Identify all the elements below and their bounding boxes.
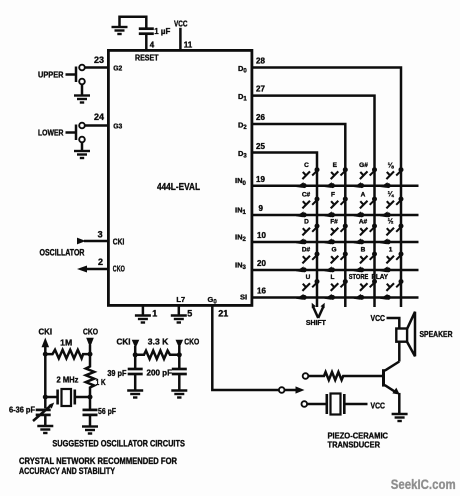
wire 200pF to ground	[178, 374, 181, 390]
svg-text:5: 5	[187, 309, 192, 319]
resistor R1 (base)	[308, 372, 382, 380]
svg-text:1 µF: 1 µF	[154, 26, 170, 36]
svg-text:ACCURACY AND STABILITY: ACCURACY AND STABILITY	[19, 466, 115, 476]
ground (varcap)	[37, 426, 53, 433]
svg-text:444L-EVAL: 444L-EVAL	[157, 182, 200, 193]
capacitor C1 1uF	[139, 29, 154, 34]
svg-text:2 MHz: 2 MHz	[57, 375, 79, 384]
svg-text:20: 20	[257, 259, 266, 268]
svg-text:28: 28	[256, 56, 265, 65]
svg-text:SI: SI	[240, 293, 247, 302]
ground (pin 1)	[135, 316, 151, 323]
svg-text:OSCILLATOR: OSCILLATOR	[40, 247, 85, 257]
svg-text:10: 10	[257, 231, 266, 240]
svg-text:CRYSTAL NETWORK RECOMMENDED FO: CRYSTAL NETWORK RECOMMENDED FOR	[19, 456, 177, 466]
svg-text:SUGGESTED OSCILLATOR CIRCUITS: SUGGESTED OSCILLATOR CIRCUITS	[52, 439, 185, 449]
speaker LS1	[396, 329, 407, 342]
wire VCC to speaker	[387, 318, 400, 329]
ground (LOWER switch)	[74, 151, 90, 158]
wire 39pF to ground	[134, 374, 137, 390]
wire pin 2 CKO with arrow	[85, 268, 108, 271]
node junction dots RC	[133, 352, 138, 357]
switch UPPER	[79, 65, 85, 71]
wire D1 to column 3	[252, 96, 375, 307]
svg-text:SHIFT: SHIFT	[306, 320, 327, 327]
svg-text:E: E	[333, 162, 338, 169]
wire SI row	[252, 296, 419, 299]
svg-text:6-36 pF: 6-36 pF	[9, 405, 35, 415]
svg-text:24: 24	[94, 112, 104, 122]
capacitor 200 pF	[178, 355, 181, 369]
node speaker input terminal	[303, 373, 309, 379]
switch A	[354, 197, 378, 218]
svg-text:A: A	[361, 192, 366, 199]
ground (39pF)	[127, 391, 143, 398]
svg-text:3.3 K: 3.3 K	[148, 336, 169, 346]
svg-text:200 pF: 200 pF	[147, 368, 173, 378]
svg-text:26: 26	[256, 113, 265, 122]
wire IN3 row	[252, 269, 419, 272]
capacitor 56 pF	[89, 397, 92, 410]
wire varcap to ground	[44, 415, 47, 426]
capacitor 6-36 pF variable	[36, 410, 51, 415]
ground (UPPER switch)	[74, 96, 90, 103]
switch STORE	[354, 279, 378, 300]
svg-text:RESET: RESET	[135, 54, 159, 63]
svg-text:CKI: CKI	[113, 237, 125, 246]
switch G	[324, 252, 348, 273]
svg-text:21: 21	[218, 309, 228, 319]
switch B	[354, 252, 378, 273]
wire emitter to ground	[398, 393, 401, 414]
svg-text:TRANSDUCER: TRANSDUCER	[328, 440, 381, 450]
wire IN2 row	[252, 241, 419, 244]
wire pin 24	[85, 124, 109, 127]
svg-text:G#: G#	[359, 162, 368, 169]
svg-text:3: 3	[98, 230, 103, 240]
switch D	[296, 224, 320, 245]
svg-text:1: 1	[389, 247, 393, 254]
wire left rail	[44, 354, 47, 408]
svg-text:CKO: CKO	[184, 336, 199, 346]
svg-text:PLAY: PLAY	[372, 274, 389, 281]
wire pin 5 stub	[178, 305, 181, 315]
svg-text:VCC: VCC	[371, 313, 386, 323]
switch E	[324, 167, 348, 188]
ground (56pF)	[82, 427, 98, 434]
svg-text:D#: D#	[302, 247, 311, 254]
svg-text:L: L	[331, 274, 335, 281]
wire IN1 row	[252, 214, 419, 217]
svg-text:SPEAKER: SPEAKER	[420, 329, 453, 339]
ground (pin 5)	[171, 316, 187, 323]
switch 1/2 note	[380, 224, 404, 245]
wire cap to pin 4	[145, 34, 148, 50]
svg-text:CKO: CKO	[83, 327, 98, 337]
wire piezo terminal	[307, 403, 326, 406]
svg-text:F: F	[331, 192, 335, 199]
switch 1 note	[380, 252, 404, 273]
svg-text:39 pF: 39 pF	[107, 368, 126, 378]
svg-text:23: 23	[94, 55, 104, 65]
svg-text:VCC: VCC	[371, 401, 386, 411]
node crystal junction dots	[43, 395, 48, 400]
svg-text:16: 16	[257, 287, 266, 296]
IC U1 444L-EVAL body	[108, 50, 252, 305]
svg-text:D: D	[304, 219, 309, 226]
wire pin 3 CKI with arrow	[84, 240, 108, 243]
svg-text:27: 27	[256, 85, 265, 94]
switch F	[324, 197, 348, 218]
svg-text:LOWER: LOWER	[38, 127, 64, 137]
switch C	[296, 167, 320, 188]
svg-text:CKI: CKI	[117, 336, 131, 346]
svg-text:G: G	[331, 247, 336, 254]
wire D2 to column 2	[252, 124, 345, 307]
wire D3 to column 1	[252, 153, 317, 308]
wire speaker to collector	[398, 342, 401, 362]
svg-text:C: C	[304, 162, 309, 169]
svg-text:CKO: CKO	[113, 265, 125, 274]
svg-text:9: 9	[259, 204, 264, 213]
svg-text:B: B	[361, 247, 366, 254]
switch F#	[324, 224, 348, 245]
svg-text:F#: F#	[330, 219, 338, 226]
switch D#	[296, 252, 320, 273]
wire VCC to pin 11	[179, 28, 182, 51]
switch LOWER	[79, 123, 85, 129]
svg-text:G2: G2	[113, 63, 122, 72]
ground (reset capacitor)	[112, 27, 128, 34]
wire UPPER switch to ground	[81, 84, 84, 95]
resistor 1K	[86, 354, 94, 397]
svg-text:SeekIC.com: SeekIC.com	[391, 477, 456, 492]
svg-text:C#: C#	[302, 192, 311, 199]
node piezo input terminal	[302, 401, 308, 407]
transistor Q1	[382, 369, 385, 386]
svg-text:½: ½	[388, 218, 394, 226]
wire pin 23	[85, 66, 109, 69]
resistor 1M	[45, 350, 90, 359]
svg-text:4: 4	[150, 40, 155, 49]
svg-text:A#: A#	[359, 219, 368, 226]
svg-text:G3: G3	[113, 121, 122, 130]
node junction right rail	[88, 352, 93, 357]
node G0 output terminal	[279, 387, 285, 393]
piezo-ceramic transducer X1	[325, 394, 328, 414]
svg-text:11: 11	[184, 40, 193, 49]
svg-text:L7: L7	[176, 295, 185, 304]
wire pin 1 stub	[142, 305, 145, 315]
wire 56pF to ground	[89, 415, 92, 427]
node junction left rail	[43, 352, 48, 357]
wire IN0 row	[252, 184, 419, 187]
switch PLAY	[380, 279, 404, 300]
switch A#	[354, 224, 378, 245]
switch U	[296, 279, 320, 300]
svg-text:UPPER: UPPER	[38, 70, 64, 80]
wire G0 arrow	[285, 389, 297, 392]
switch 1/4 note	[380, 197, 404, 218]
svg-text:2: 2	[98, 257, 103, 267]
svg-text:19: 19	[256, 175, 265, 184]
wire D0 to column 4	[252, 68, 401, 308]
ground (200pF)	[171, 391, 187, 398]
wire piezo to VCC	[346, 403, 368, 406]
wire reset-cap top	[120, 17, 147, 29]
svg-text:U: U	[306, 274, 311, 281]
svg-text:STORE: STORE	[349, 274, 369, 281]
ground (emitter)	[392, 414, 408, 421]
svg-text:1: 1	[152, 309, 157, 319]
switch L	[324, 279, 348, 300]
svg-text:VCC: VCC	[174, 20, 188, 29]
svg-text:1M: 1M	[60, 337, 72, 347]
svg-text:25: 25	[256, 142, 265, 151]
node SHIFT indicator	[313, 307, 318, 319]
switch G#	[354, 167, 378, 188]
wire LOWER switch to ground	[81, 142, 84, 151]
resistor 3.3K	[135, 351, 179, 359]
switch C#	[296, 197, 320, 218]
svg-text:CKI: CKI	[39, 327, 53, 337]
svg-text:1 K: 1 K	[96, 378, 106, 387]
wire G0 pin 21 down and right	[212, 305, 279, 390]
svg-text:56 pF: 56 pF	[98, 406, 116, 416]
switch 1/8 note	[380, 167, 404, 188]
capacitor 39 pF	[134, 355, 137, 369]
